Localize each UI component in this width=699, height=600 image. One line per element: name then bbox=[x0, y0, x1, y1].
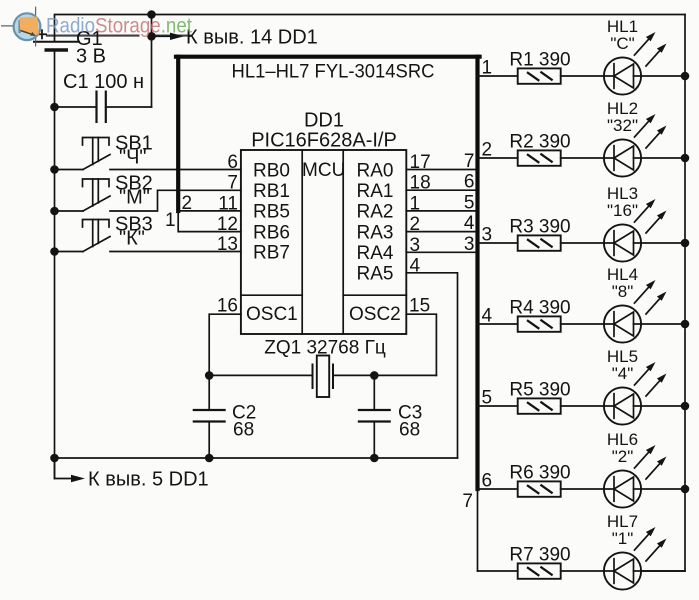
svg-text:"1": "1" bbox=[612, 529, 634, 548]
resistor R6 bbox=[518, 481, 561, 496]
svg-text:"2": "2" bbox=[612, 447, 634, 466]
svg-text:R6 390: R6 390 bbox=[509, 463, 570, 484]
node junction arrow tap bbox=[147, 32, 156, 41]
wire R6 to HL6 bbox=[561, 488, 614, 490]
svg-text:R3 390: R3 390 bbox=[509, 217, 570, 238]
logo RadioStorage.net text bbox=[46, 14, 192, 38]
wire net 1 exit to R1 bbox=[478, 75, 518, 77]
LED HL4 bbox=[604, 280, 667, 343]
svg-text:3 В: 3 В bbox=[76, 46, 106, 68]
svg-text:RA4: RA4 bbox=[357, 243, 394, 264]
op chip DD1 box bbox=[241, 150, 406, 334]
svg-text:5: 5 bbox=[482, 388, 493, 409]
svg-text:"16": "16" bbox=[607, 201, 638, 220]
pushbutton SB3 bbox=[55, 220, 111, 252]
resistor R5 bbox=[518, 398, 561, 413]
node junction anode bus row 4 bbox=[681, 320, 690, 329]
svg-text:11: 11 bbox=[218, 193, 238, 214]
wire arrow to pin 14 DD1 bbox=[152, 35, 172, 37]
svg-text:"4": "4" bbox=[612, 364, 634, 383]
svg-text:"32": "32" bbox=[607, 116, 638, 135]
wire crystal row right bbox=[333, 374, 436, 376]
wire HL1 to anode bus bbox=[641, 75, 685, 77]
node junction crystal left bbox=[205, 371, 214, 380]
wire net 2 exit to R2 bbox=[478, 157, 518, 159]
wire crystal row left bbox=[209, 374, 312, 376]
svg-text:3: 3 bbox=[482, 225, 493, 246]
wire RA0 to harness net 7 bbox=[406, 169, 476, 171]
svg-text:RB0: RB0 bbox=[253, 160, 290, 181]
wire R3 to HL3 bbox=[561, 242, 614, 244]
capacitor C2 bbox=[193, 375, 226, 458]
wire RA3 to harness net 4 bbox=[406, 231, 476, 233]
pushbutton SB2 bbox=[55, 179, 111, 211]
wire R1 to HL1 bbox=[561, 75, 614, 77]
wire left minus bus bbox=[54, 50, 56, 479]
wire vertical to K vyv.14 arrow and C1 bbox=[151, 15, 153, 108]
wire ground rail bbox=[55, 457, 458, 459]
node junction anode bus row 3 bbox=[681, 239, 690, 248]
svg-text:RadioStorage.net: RadioStorage.net bbox=[46, 14, 192, 38]
node junction anode bus row 2 bbox=[681, 154, 690, 163]
svg-text:5: 5 bbox=[464, 192, 475, 213]
svg-text:MCU: MCU bbox=[302, 160, 345, 181]
node junction C1 left bbox=[50, 103, 59, 112]
svg-text:7: 7 bbox=[464, 151, 475, 172]
battery G1 bbox=[33, 29, 80, 50]
wire SB2 to RB1 pin 7 bbox=[110, 190, 241, 211]
resistor R3 bbox=[518, 235, 561, 250]
LED HL7 bbox=[604, 527, 667, 590]
svg-text:RA2: RA2 bbox=[357, 202, 394, 223]
wire OSC1 pin16 to crystal bbox=[209, 314, 241, 375]
wire net 6 exit to R6 bbox=[478, 488, 518, 490]
node junction anode bus row 1 bbox=[681, 72, 690, 81]
svg-text:RB1: RB1 bbox=[253, 181, 290, 202]
node junction crystal right bbox=[370, 371, 379, 380]
wire HL3 to anode bus bbox=[641, 242, 685, 244]
resistor R7 bbox=[518, 563, 561, 578]
wire arrow to pin 5 DD1 bbox=[55, 458, 73, 479]
svg-text:R1 390: R1 390 bbox=[509, 50, 570, 71]
crystal ZQ1 bbox=[313, 356, 334, 398]
wire right LED anode bus bbox=[641, 15, 685, 572]
svg-text:RB6: RB6 bbox=[253, 222, 290, 243]
svg-text:12: 12 bbox=[217, 214, 238, 235]
capacitor C1 bbox=[55, 91, 152, 124]
svg-text:OSC2: OSC2 bbox=[349, 304, 401, 325]
svg-text:3: 3 bbox=[464, 234, 475, 255]
wire harness left edge bbox=[176, 57, 180, 211]
wire harness thin tail to net 7 bbox=[477, 489, 479, 571]
wire HL7 to anode bus bbox=[641, 570, 685, 572]
wire harness top edge bbox=[176, 55, 480, 59]
LED HL2 bbox=[604, 114, 667, 177]
svg-text:68: 68 bbox=[233, 420, 254, 441]
svg-text:4: 4 bbox=[482, 306, 493, 327]
svg-text:1: 1 bbox=[165, 210, 176, 231]
wire net1 RB6 to harness bbox=[178, 211, 241, 232]
wire HL4 to anode bus bbox=[641, 323, 685, 325]
svg-text:RA1: RA1 bbox=[357, 181, 394, 202]
svg-text:"C": "C" bbox=[610, 34, 634, 53]
resistor R2 bbox=[518, 150, 561, 165]
pushbutton SB1 bbox=[55, 138, 111, 170]
svg-text:R7 390: R7 390 bbox=[509, 545, 570, 566]
wire OSC2 pin15 to crystal bbox=[406, 314, 436, 375]
svg-text:RB5: RB5 bbox=[253, 202, 290, 223]
node junction SB2 bbox=[50, 207, 59, 216]
wire harness right edge bbox=[475, 57, 479, 489]
wire net 7 exit to R7 bbox=[478, 570, 518, 572]
wire HL6 to anode bus bbox=[641, 488, 685, 490]
wire net 4 exit to R4 bbox=[478, 323, 518, 325]
LED HL5 bbox=[604, 362, 667, 425]
svg-text:RB7: RB7 bbox=[253, 242, 290, 263]
svg-text:DD1: DD1 bbox=[304, 110, 344, 132]
wire net 3 exit to R3 bbox=[478, 242, 518, 244]
LED HL1 bbox=[604, 32, 667, 95]
svg-text:7: 7 bbox=[227, 173, 238, 194]
node junction C3 bottom bbox=[370, 454, 379, 463]
resistor R1 bbox=[518, 68, 561, 83]
wire top supply rail from G1 plus to right LED bus bbox=[55, 15, 686, 42]
wire RA2 to harness net 5 bbox=[406, 210, 476, 212]
svg-text:R2 390: R2 390 bbox=[509, 132, 570, 153]
svg-text:R4 390: R4 390 bbox=[509, 298, 570, 319]
svg-text:ZQ1 32768 Гц: ZQ1 32768 Гц bbox=[264, 338, 386, 359]
svg-text:C1 100 н: C1 100 н bbox=[63, 71, 144, 93]
svg-text:"8": "8" bbox=[612, 282, 634, 301]
wire R2 to HL2 bbox=[561, 157, 614, 159]
resistor R4 bbox=[518, 316, 561, 331]
svg-text:RA0: RA0 bbox=[357, 160, 394, 181]
svg-text:"Ч": "Ч" bbox=[119, 147, 147, 169]
svg-text:"К": "К" bbox=[119, 228, 145, 250]
logo RadioStorage.net icon bbox=[1, 7, 40, 47]
svg-text:2: 2 bbox=[182, 193, 193, 214]
svg-text:RA3: RA3 bbox=[357, 222, 394, 243]
node junction SB1 bbox=[50, 165, 59, 174]
svg-text:К выв. 5 DD1: К выв. 5 DD1 bbox=[88, 469, 209, 491]
capacitor C3 bbox=[358, 375, 391, 458]
wire HL2 to anode bus bbox=[641, 157, 685, 159]
wire R7 to HL7 bbox=[561, 570, 614, 572]
wire R5 to HL5 bbox=[561, 405, 614, 407]
node junction top rail bbox=[147, 10, 156, 19]
node junction ground rail left bbox=[50, 454, 59, 463]
node junction SB3 bbox=[50, 247, 59, 256]
wire R4 to HL4 bbox=[561, 323, 614, 325]
svg-text:"М": "М" bbox=[119, 187, 150, 209]
svg-text:2: 2 bbox=[482, 140, 493, 161]
svg-text:13: 13 bbox=[217, 234, 238, 255]
wire RA4 to harness net 3 bbox=[406, 251, 476, 253]
LED HL6 bbox=[604, 445, 667, 508]
LED HL3 bbox=[604, 199, 667, 262]
svg-text:R5 390: R5 390 bbox=[509, 380, 570, 401]
svg-text:68: 68 bbox=[399, 420, 420, 441]
wire SB1 to RB0 pin 6 bbox=[110, 169, 241, 171]
svg-text:OSC1: OSC1 bbox=[246, 304, 298, 325]
node junction anode bus row 6 bbox=[681, 485, 690, 494]
svg-text:7: 7 bbox=[462, 491, 473, 512]
node junction anode bus row 5 bbox=[681, 402, 690, 411]
wire HL5 to anode bus bbox=[641, 405, 685, 407]
svg-text:6: 6 bbox=[464, 172, 475, 193]
wire net 5 exit to R5 bbox=[478, 405, 518, 407]
svg-text:6: 6 bbox=[227, 152, 238, 173]
wire RA1 to harness net 6 bbox=[406, 189, 476, 191]
wire net2 RB5 to harness bbox=[178, 210, 241, 212]
node junction C2 bottom bbox=[205, 454, 214, 463]
svg-text:PIC16F628A-I/P: PIC16F628A-I/P bbox=[251, 130, 397, 152]
svg-text:К выв. 14 DD1: К выв. 14 DD1 bbox=[186, 27, 318, 49]
wire SB3 to RB7 pin 13 bbox=[110, 251, 241, 253]
svg-text:1: 1 bbox=[482, 58, 493, 79]
svg-text:4: 4 bbox=[464, 213, 475, 234]
svg-text:6: 6 bbox=[482, 471, 493, 492]
svg-text:HL1–HL7 FYL-3014SRC: HL1–HL7 FYL-3014SRC bbox=[232, 62, 435, 83]
wire RA5 to ground rail bbox=[406, 273, 457, 458]
svg-text:RA5: RA5 bbox=[357, 264, 394, 285]
